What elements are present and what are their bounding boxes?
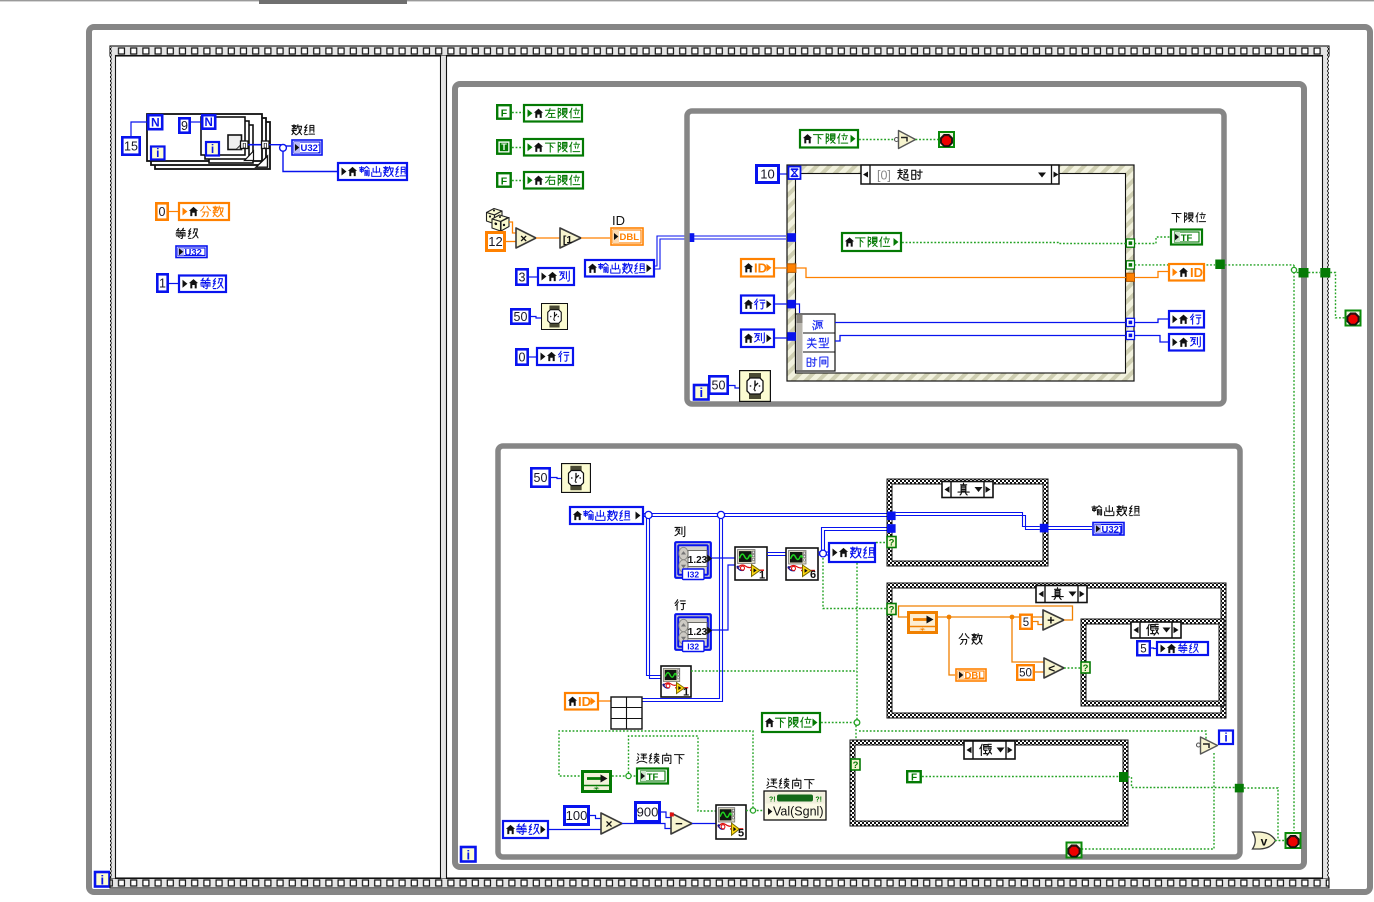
- subVI node 6: [786, 548, 818, 580]
- svg-text:1: 1: [683, 687, 689, 699]
- long vertical green wire to stop B: [1293, 265, 1295, 831]
- round toward +inf function: [560, 228, 581, 248]
- svg-text:0: 0: [159, 205, 166, 219]
- subVI node 1: [735, 547, 767, 580]
- wire round to DBL: [581, 237, 610, 239]
- inner for loop i terminal: [206, 142, 219, 156]
- wire not to stop terminal: [916, 139, 940, 141]
- label 输出数组 (indicator): [1092, 506, 1102, 515]
- svg-text:TF: TF: [647, 772, 659, 783]
- not gate (lower): [1197, 743, 1201, 747]
- svg-text:i: i: [211, 142, 214, 156]
- flat sequence frame 1 outline: [116, 56, 441, 879]
- indicator U32 array out: [1093, 523, 1124, 536]
- svg-text:12: 12: [488, 234, 502, 249]
- array element node: [228, 135, 242, 150]
- wire 10 to timeout terminal: [780, 173, 788, 175]
- wait ms icon D: [740, 371, 771, 402]
- case structure 4 border: [850, 740, 1128, 826]
- wire between tunnels: [1297, 272, 1299, 274]
- svg-text:50: 50: [1019, 668, 1032, 680]
- local variable read 下限位 (top): [800, 130, 858, 148]
- or gate: [1253, 832, 1276, 849]
- wire tunnel to tunnel: [248, 144, 261, 146]
- wire 等级 to multiply: [549, 829, 601, 831]
- local variable read 等级 (lower): [503, 821, 548, 838]
- local variable read 下限位 (in event): [842, 233, 901, 251]
- wire F to 右限位: [512, 180, 523, 182]
- boolean constant F (case4): [907, 771, 921, 782]
- dotted wire loop to feedback node: [559, 731, 753, 808]
- svg-text:F: F: [501, 108, 508, 120]
- wire node1 to node6: [767, 552, 786, 554]
- junction circle green: [1291, 267, 1296, 272]
- svg-text:I32: I32: [687, 569, 699, 579]
- outer for loop i terminal: [151, 147, 165, 160]
- wire node6 to 数组 and case1: [818, 551, 828, 553]
- tunnel on while loop D border (blue): [686, 233, 695, 242]
- wire 下限位 to junction: [821, 722, 854, 724]
- svg-text:9: 9: [181, 119, 188, 133]
- svg-text:i: i: [699, 385, 703, 400]
- wire dice and 12 to multiply: [509, 222, 516, 233]
- wire 15 to N: [131, 122, 147, 136]
- case structure 3 border: [1081, 619, 1224, 706]
- green wire 数组 to case1 selector: [876, 542, 887, 544]
- wire to array indicator with branch: [269, 144, 281, 146]
- svg-text:50: 50: [534, 471, 548, 485]
- svg-text:+: +: [1047, 613, 1055, 628]
- svg-text:i: i: [1224, 731, 1227, 745]
- green tunnel on while loop B border: [1299, 268, 1309, 278]
- wire node5 to Val(Sgnl): [746, 810, 764, 812]
- flat sequence frame 2 outline: [447, 56, 1323, 879]
- green tunnel on loop E border: [1235, 784, 1244, 793]
- wire less-than to case3 selector: [1064, 667, 1081, 669]
- boolean constant T: [497, 140, 511, 154]
- branch wire down to replace grid: [642, 517, 720, 699]
- wire orange tunnel to ID write: [1135, 272, 1169, 278]
- svg-text:?!: ?!: [769, 797, 776, 804]
- case 3 selector label 假: [1131, 622, 1181, 638]
- stop indicator terminal D: [1067, 843, 1082, 858]
- svg-text:?: ?: [889, 537, 895, 548]
- svg-text:U32]: U32]: [1102, 524, 1123, 535]
- outer loop output tunnel: [262, 141, 270, 149]
- local variable read 列: [741, 330, 774, 348]
- replace array grid node: [611, 697, 642, 729]
- subVI node 1 (lower): [661, 666, 691, 697]
- label 等级: [176, 228, 186, 238]
- top scrollbar line: [0, 0, 1374, 1]
- svg-text:N: N: [205, 117, 213, 129]
- flat sequence structure border: [110, 46, 1329, 56]
- local variable write 分数: [179, 203, 229, 220]
- case3 selector tunnel: [1081, 662, 1090, 673]
- numeric constant 9: [179, 118, 189, 132]
- flat sequence frame divider: [441, 56, 446, 878]
- wire 50 to wait E: [551, 478, 561, 479]
- svg-text:?: ?: [853, 760, 859, 771]
- numeric constant 12: [487, 233, 505, 251]
- local variable write ID: [1169, 264, 1204, 281]
- svg-text:ID: ID: [754, 260, 767, 275]
- svg-text:ID: ID: [1190, 265, 1203, 280]
- wire 下限位 to event tunnel: [902, 243, 1126, 244]
- numeric constant 100: [565, 807, 589, 825]
- wire F to case4 tunnel: [922, 776, 1119, 778]
- stop terminal (loop D): [939, 132, 954, 147]
- wire 下限位 to not gate: [859, 139, 894, 141]
- feedback wire loop around: [899, 606, 1073, 620]
- event right tunnel green 2: [1126, 261, 1134, 269]
- numeric constant 0 (row): [516, 349, 527, 364]
- case1 selector tunnel: [887, 537, 896, 548]
- svg-text:?: ?: [889, 604, 895, 615]
- svg-text:0: 0: [519, 351, 526, 365]
- event structure border: [787, 165, 1134, 381]
- label 行: [675, 600, 685, 610]
- wire 列 control to node 1: [712, 557, 735, 559]
- wires event data node to right tunnels: [835, 322, 1126, 324]
- wire ID to grid: [599, 700, 611, 702]
- wire TF branch to node5: [629, 736, 717, 811]
- orange tunnel on event left border: [787, 264, 796, 273]
- svg-text:[]: []: [242, 143, 246, 149]
- while loop B (right gray frame): [455, 84, 1304, 867]
- local variable write 输出数组: [338, 163, 407, 180]
- wire 50 to wait: [531, 317, 541, 319]
- case structure 2 border: [887, 583, 1226, 718]
- wait ms icon: [542, 304, 568, 330]
- svg-text:50: 50: [712, 379, 726, 393]
- wire 100 to multiply: [590, 816, 601, 819]
- numeric constant 1: [157, 274, 167, 291]
- green tunnel on sequence border: [1320, 268, 1330, 278]
- iteration i terminal box: [1219, 731, 1233, 745]
- svg-text:?!: ?!: [815, 797, 822, 804]
- svg-text:DBL: DBL: [620, 232, 640, 243]
- svg-text:1.23: 1.23: [688, 555, 708, 566]
- wire to 列 write: [1135, 336, 1169, 343]
- while loop D (upper gray frame): [687, 111, 1224, 404]
- svg-text:[1: [1: [563, 234, 572, 246]
- green tunnel on loop D border: [1215, 260, 1225, 270]
- wire 0 to 行: [529, 356, 536, 358]
- local variable read 行: [741, 296, 774, 314]
- wire or gate to stop B: [1275, 840, 1285, 842]
- orange wire inside event: [796, 268, 1126, 278]
- array indicator U32: [292, 140, 322, 155]
- svg-text:10: 10: [760, 167, 774, 182]
- wire junction dot: [280, 144, 287, 151]
- numeric constant 15: [122, 137, 139, 154]
- svg-text:5: 5: [1023, 617, 1029, 629]
- case2 selector tunnel: [887, 604, 896, 615]
- random number dice icon: [487, 209, 510, 232]
- label 列: [675, 526, 685, 536]
- junction circle green lower: [854, 720, 860, 726]
- numeric control 列: [675, 542, 711, 578]
- svg-text:T: T: [501, 142, 507, 152]
- label 数组: [292, 125, 302, 135]
- numeric constant 50 (wait D): [709, 376, 727, 393]
- while loop B iteration terminal i: [461, 847, 476, 862]
- orange wire feedback out: [938, 616, 1043, 618]
- local variable write 列: [1169, 334, 1204, 351]
- 2D array wire to case 1: [644, 513, 887, 515]
- inner loop output tunnel: [241, 141, 249, 149]
- wire case4 to loop E tunnel: [1128, 777, 1235, 788]
- wire to 行 write: [1135, 319, 1169, 323]
- numeric constant 50 (wait E): [531, 468, 549, 486]
- green wire node1 to junction: [691, 670, 857, 672]
- junction circle node5: [750, 808, 755, 813]
- svg-text:F: F: [501, 176, 508, 188]
- svg-text:U32]: U32]: [301, 143, 322, 154]
- junction circle 2: [717, 511, 724, 518]
- multiply function lower: [601, 813, 622, 834]
- wire 50 to less-than: [1035, 671, 1044, 673]
- svg-text:DBL: DBL: [965, 671, 985, 682]
- svg-text:×: ×: [520, 231, 527, 245]
- wire tunnel to TF indicator: [1135, 237, 1171, 244]
- svg-text:6: 6: [810, 569, 816, 581]
- svg-text:<: <: [1048, 661, 1055, 675]
- wire 1 to 等级: [169, 283, 178, 285]
- wire multiply to round: [536, 237, 560, 239]
- event right tunnel green 1: [1126, 239, 1134, 247]
- outer for loop N terminal: [148, 115, 162, 129]
- local variable write 数组: [829, 543, 875, 562]
- green wire 数组 down through junction: [856, 563, 858, 719]
- event selector label [0] 超时: [861, 165, 1059, 184]
- wire 5 to increment: [1033, 622, 1043, 625]
- svg-text:1: 1: [759, 570, 765, 582]
- label 下限位 (indicator): [1172, 214, 1181, 223]
- long green wire to not gate: [859, 731, 1206, 745]
- numeric constant 5 (blue): [1137, 641, 1150, 655]
- wire ID to event tunnel: [775, 267, 787, 269]
- wire T to 下限位: [512, 147, 523, 149]
- wire F to 左限位: [512, 112, 523, 114]
- boolean constant F (left limit): [497, 105, 511, 119]
- increment function: [1043, 610, 1064, 630]
- local variable write 等级: [179, 276, 226, 293]
- case1 right tunnel: [1040, 524, 1049, 533]
- svg-text:Val(Sgnl): Val(Sgnl): [773, 805, 823, 819]
- case1 left tunnel array 2: [887, 524, 896, 533]
- case 4 selector label 假: [964, 741, 1015, 759]
- wire to stop indicator A: [1330, 273, 1345, 318]
- svg-text:N: N: [151, 116, 160, 130]
- feedback node 连续向下 (green): [583, 772, 611, 792]
- svg-text:ID: ID: [578, 694, 591, 709]
- svg-text:100: 100: [566, 808, 588, 823]
- wire loop D tunnel to right side: [1225, 264, 1294, 266]
- indicator DBL 分数: [956, 669, 986, 681]
- inner for loop N terminal: [202, 115, 215, 129]
- stop indicator terminal A: [1346, 311, 1361, 326]
- case1 left tunnel array: [887, 512, 896, 521]
- local variable write 下限位: [524, 139, 583, 156]
- svg-text:50: 50: [514, 310, 528, 324]
- local variable read 输出数组 (lower): [570, 507, 643, 524]
- blue tunnel col: [787, 332, 796, 341]
- svg-text:−: −: [675, 816, 683, 831]
- label 分数 (DBL): [959, 634, 969, 645]
- 2D array wire to event structure: [655, 236, 786, 266]
- branch wire down to index node: [647, 517, 662, 676]
- event right tunnel orange: [1126, 273, 1134, 281]
- local variable write 右限位: [524, 172, 583, 189]
- svg-text:5: 5: [738, 828, 744, 840]
- svg-text:v: v: [1261, 835, 1268, 849]
- wire subtract to node5: [692, 823, 716, 825]
- property node Val(Sgnl): [764, 791, 826, 820]
- blue tunnel row: [787, 300, 796, 309]
- local variable write 等级 (case3): [1157, 642, 1208, 655]
- wire not gate down to stop D: [1082, 753, 1214, 849]
- wire 900 to subtract: [661, 812, 671, 818]
- subVI node 5: [716, 805, 746, 839]
- case1 inside wires: [896, 513, 1040, 527]
- local variable write 列: [538, 268, 574, 285]
- wire loop E tunnel to or gate output: [1244, 788, 1278, 841]
- local variable read ID (lower): [565, 693, 598, 710]
- local variable write 左限位: [524, 105, 582, 122]
- local variable read ID (orange): [741, 259, 774, 277]
- numeric constant 5 (orange): [1020, 615, 1032, 629]
- wire 50 to wait D: [729, 386, 739, 389]
- for loop stack (outer): [155, 122, 270, 169]
- boolean constant F (right limit): [497, 173, 511, 187]
- not gate (top): [895, 138, 899, 142]
- numeric constant 10 (timeout): [757, 166, 779, 183]
- svg-text:i: i: [156, 146, 159, 160]
- local variable read 下限位 (lower): [762, 713, 820, 732]
- wire 行 to tunnel: [775, 303, 787, 305]
- numeric control 行: [675, 614, 711, 650]
- svg-text:i: i: [100, 873, 104, 888]
- local variable write 行: [537, 348, 573, 365]
- stop terminal B (loop B): [1286, 833, 1301, 848]
- svg-text:1: 1: [159, 277, 166, 291]
- wire tunnel through loop D border: [1135, 264, 1216, 266]
- case 1 selector label 真: [942, 482, 993, 498]
- feedback node (orange): [909, 613, 937, 633]
- case structure 1 border: [887, 479, 1048, 566]
- local variable write 行: [1169, 311, 1204, 328]
- svg-text:900: 900: [637, 805, 659, 820]
- orange wire to DBL 分数: [949, 619, 955, 675]
- for loop stack (inner): [209, 125, 253, 163]
- numeric constant 0 (orange): [156, 203, 167, 219]
- wire 列 to tunnel: [775, 337, 787, 339]
- wire junction to case4 selector: [855, 726, 857, 761]
- case 2 selector label 真: [1036, 586, 1087, 603]
- svg-text:5: 5: [1140, 643, 1146, 655]
- junction circle 3: [820, 550, 827, 557]
- wire feedback to TF: [612, 775, 636, 777]
- event structure timeout terminal: [789, 167, 801, 180]
- subtract function: [671, 813, 692, 834]
- label 连续向下 (property): [767, 779, 777, 788]
- numeric constant 900: [636, 803, 660, 822]
- while loop E (lower gray frame): [498, 446, 1240, 857]
- svg-text:?: ?: [1083, 663, 1089, 674]
- svg-text:[]: []: [263, 143, 267, 149]
- event right tunnel blue row: [1126, 318, 1134, 326]
- case4 selector tunnel: [851, 759, 860, 770]
- wire 3 to 列: [529, 276, 537, 278]
- coercion dot: [670, 813, 674, 817]
- indicator TF 连续向下: [637, 769, 668, 784]
- svg-text:F: F: [911, 773, 917, 784]
- label 连续向下: [637, 754, 647, 763]
- junction circle 1: [645, 511, 652, 518]
- wire 行 control to node 1: [712, 565, 735, 630]
- svg-text:[0]: [0]: [877, 169, 891, 183]
- green wire node6 to case2 selector: [823, 558, 887, 609]
- wire 9 to inner N: [191, 121, 202, 123]
- svg-text:15: 15: [124, 140, 138, 154]
- wire case1 to U32 indicator: [1048, 526, 1092, 528]
- svg-text:3: 3: [519, 271, 526, 285]
- blue tunnel on event left border (array): [787, 233, 796, 242]
- orange junction dots: [947, 615, 952, 620]
- multiply function: [516, 228, 536, 248]
- wire multiply to subtract: [622, 824, 671, 829]
- case4 right tunnel green: [1119, 772, 1128, 782]
- indicator U32 等级: [176, 246, 207, 258]
- numeric constant 3: [516, 269, 527, 284]
- svg-text:TF: TF: [1181, 233, 1193, 244]
- svg-text:ID: ID: [612, 213, 625, 228]
- wire 5 to 等级 write: [1151, 647, 1156, 650]
- less than function: [1044, 658, 1064, 678]
- svg-text:1.23: 1.23: [688, 627, 708, 638]
- while loop A iteration terminal i: [95, 872, 110, 887]
- wire 0 to 分数: [169, 211, 178, 213]
- while loop D iteration terminal i: [694, 385, 709, 400]
- svg-text:×: ×: [605, 817, 612, 831]
- event data node: [796, 314, 836, 371]
- svg-text:I32: I32: [687, 641, 699, 651]
- orange wire to less-than: [1012, 619, 1044, 662]
- junction circle TF: [626, 773, 631, 778]
- svg-text:U32: U32: [185, 247, 202, 258]
- wait ms icon E: [562, 464, 591, 493]
- indicator DBL (ID): [611, 228, 643, 245]
- svg-text:i: i: [466, 848, 470, 863]
- local variable read 输出数组 (upper): [585, 260, 654, 277]
- event right tunnel blue col: [1126, 331, 1134, 339]
- numeric constant 50 (orange): [1017, 665, 1034, 680]
- indicator TF 下限位: [1171, 230, 1202, 245]
- numeric constant 50 (left): [511, 309, 529, 323]
